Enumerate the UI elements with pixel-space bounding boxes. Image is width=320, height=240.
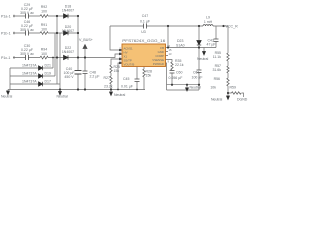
svg-text:R59: R59 [230,86,236,90]
svg-text:1N4007: 1N4007 [62,29,74,33]
svg-text:L9: L9 [206,16,210,20]
svg-text:S1A0: S1A0 [176,44,185,48]
svg-text:Neutral: Neutral [114,93,126,97]
svg-text:VCC_R: VCC_R [226,25,239,29]
svg-text:305 V ac: 305 V ac [20,28,34,32]
svg-text:R56: R56 [214,77,220,81]
svg-text:Neutral: Neutral [197,57,209,61]
svg-text:0.1 µF: 0.1 µF [140,20,150,24]
svg-text:31.6k: 31.6k [212,68,221,72]
svg-text:D19: D19 [45,72,51,76]
svg-text:D17: D17 [45,80,51,84]
svg-text:DGND: DGND [237,98,248,102]
svg-text:1N4737A: 1N4737A [22,72,37,76]
svg-text:Neutral: Neutral [211,98,223,102]
svg-text:D23: D23 [177,39,183,43]
svg-text:15k: 15k [146,74,152,78]
svg-text:C47: C47 [142,14,148,18]
svg-text:100: 100 [41,52,47,56]
svg-text:Neutral: Neutral [57,95,69,99]
svg-text:P1b-1: P1b-1 [1,32,11,36]
svg-text:R91: R91 [41,23,47,27]
svg-text:2.2 µF: 2.2 µF [90,75,100,79]
svg-text:VOUT/B: VOUT/B [124,62,135,66]
svg-text:1N4737A: 1N4737A [22,80,37,84]
svg-text:U3: U3 [141,30,146,34]
svg-text:22.1k: 22.1k [175,63,184,67]
svg-text:P1a-1: P1a-1 [1,15,11,19]
svg-text:1 mH: 1 mH [204,20,213,24]
svg-text:1N4007: 1N4007 [62,50,74,54]
svg-text:10k: 10k [210,86,216,90]
svg-text:Neutral: Neutral [190,86,202,90]
svg-text:R27: R27 [104,76,110,80]
svg-text:1N4737A: 1N4737A [22,64,37,68]
svg-text:R94: R94 [41,48,47,52]
svg-text:15k: 15k [114,69,120,73]
svg-text:C61: C61 [193,71,199,75]
svg-text:Neutral: Neutral [1,95,13,99]
svg-text:100 µF: 100 µF [192,76,203,80]
svg-text:PFS7624X_GGG_16: PFS7624X_GGG_16 [122,38,166,43]
svg-text:305 V ac: 305 V ac [20,52,34,56]
svg-text:11.1k: 11.1k [213,55,222,59]
svg-text:450 V: 450 V [64,75,74,79]
svg-text:PWRGD: PWRGD [153,62,164,66]
svg-text:100: 100 [41,28,47,32]
svg-text:23.2k: 23.2k [104,85,113,89]
svg-text:0.056 µF: 0.056 µF [169,76,183,80]
svg-text:C60: C60 [176,71,182,75]
svg-text:C45: C45 [123,77,129,81]
svg-text:0.01 µF: 0.01 µF [121,85,133,89]
svg-text:47 µF: 47 µF [207,43,216,47]
svg-text:R92: R92 [41,5,47,9]
svg-text:1N4007: 1N4007 [62,9,74,13]
svg-text:D21: D21 [45,64,51,68]
svg-text:V_BUS+: V_BUS+ [79,38,93,42]
svg-text:100: 100 [41,10,47,14]
svg-text:305 V ac: 305 V ac [20,11,34,15]
svg-text:P1c-1: P1c-1 [1,56,10,60]
